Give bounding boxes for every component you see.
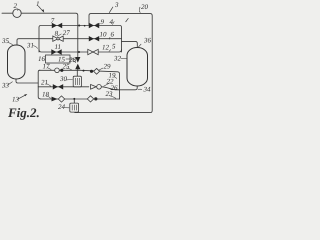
svg-text:30: 30 [59, 75, 68, 83]
valve 21 [53, 84, 63, 89]
valve 12 open [88, 49, 98, 54]
svg-text:25: 25 [63, 63, 71, 71]
tank 35 [8, 45, 26, 79]
pump 2 [13, 9, 21, 17]
svg-text:18: 18 [42, 91, 50, 99]
svg-text:32: 32 [113, 55, 122, 63]
box 30 [73, 76, 81, 87]
svg-text:29: 29 [104, 63, 112, 71]
wire row 17/29 [40, 70, 120, 99]
svg-text:4: 4 [110, 18, 114, 26]
svg-text:6: 6 [111, 31, 115, 39]
svg-text:13: 13 [12, 96, 20, 104]
svg-text:9: 9 [101, 18, 105, 26]
tank 36 [127, 48, 148, 87]
wire box30 stub [76, 70, 78, 76]
wire row 21 to tank36 bottom [38, 85, 137, 90]
wire pipe 20 loop TP2 [75, 14, 152, 113]
svg-text:Fig.2.: Fig.2. [7, 105, 40, 120]
box 15 [46, 55, 71, 63]
wire M2 below valve 28 [77, 69, 79, 70]
wire row 18 [40, 98, 119, 100]
svg-text:27: 27 [63, 29, 71, 37]
svg-text:7: 7 [51, 17, 55, 25]
svg-text:31: 31 [26, 42, 34, 50]
svg-text:35: 35 [1, 37, 10, 45]
wire row1 with manifolds M1 M3 [39, 26, 122, 53]
wire pump line 1 into manifold M2 [2, 13, 78, 56]
svg-text:12: 12 [102, 43, 110, 51]
valve 8 open [53, 36, 63, 41]
check valve 18 row right: diamond and ball [87, 96, 93, 102]
valve 9 [89, 23, 99, 28]
check valve 17 row: circle and ball [55, 68, 60, 73]
wire tank35 bottom outlet 33 [16, 79, 38, 83]
svg-text:23: 23 [106, 90, 114, 98]
svg-text:11: 11 [55, 43, 61, 51]
svg-text:34: 34 [143, 86, 152, 94]
junction dots [78, 25, 80, 27]
wire box24 stub [73, 99, 75, 103]
check valve 18 row left: filled triangle and diamond [52, 97, 58, 102]
valve 22: triangle and circle [91, 85, 97, 90]
svg-text:36: 36 [143, 37, 152, 45]
wire lower-left manifold [38, 70, 40, 99]
box 24 [70, 103, 79, 112]
svg-text:21: 21 [41, 78, 48, 86]
valve 7 [52, 23, 62, 28]
svg-text:10: 10 [100, 31, 108, 39]
svg-text:24: 24 [58, 103, 66, 111]
valve 28 vertical [75, 57, 80, 69]
valve 10 [89, 36, 99, 41]
svg-text:5: 5 [112, 43, 116, 51]
svg-text:3: 3 [114, 1, 119, 9]
wire row2 from tank35 stub across [17, 39, 122, 45]
valve 11 [51, 49, 61, 54]
svg-text:20: 20 [141, 3, 149, 11]
svg-text:33: 33 [1, 82, 10, 90]
wire row3 [39, 50, 122, 53]
check valve 29: ball and diamond [90, 70, 93, 73]
svg-text:17: 17 [43, 63, 51, 71]
wire branch M3 to tank36 top [122, 41, 138, 47]
svg-text:28: 28 [69, 56, 77, 64]
